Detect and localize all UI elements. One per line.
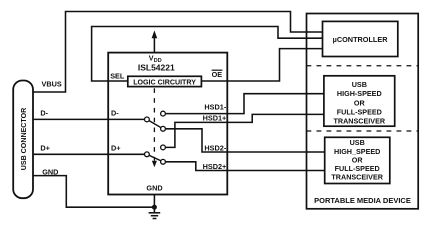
wire D- (connector to switch pole) [33, 118, 145, 120]
wire HSD2+ net (switch contact to transceiver 2) [165, 162, 324, 171]
wire HSD1+ net (switch contact to transceiver 1) [165, 114, 324, 147]
svg-text:SEL: SEL [110, 71, 125, 80]
portable media device box [307, 14, 419, 209]
svg-text:VBUS: VBUS [42, 80, 62, 89]
wire HSD1- net (switch contact to transceiver 1) [165, 94, 324, 114]
svg-text:OE: OE [212, 70, 223, 79]
svg-text:FULL-SPEED: FULL-SPEED [337, 108, 382, 117]
svg-text:TRANSCEIVER: TRANSCEIVER [334, 116, 386, 125]
switch S1 (D- pole and throws) [145, 111, 166, 131]
wire SEL net (logic circuitry to uController) [92, 27, 323, 82]
svg-text:GND: GND [42, 167, 58, 176]
svg-text:LOGIC CIRCUITRY: LOGIC CIRCUITRY [133, 78, 196, 86]
svg-text:USB CONNECTOR: USB CONNECTOR [20, 108, 28, 171]
uController U2 [323, 21, 398, 56]
svg-text:D+: D+ [40, 143, 50, 152]
label VDD [149, 53, 162, 64]
chip U1 ISL54221 box [108, 53, 227, 195]
dashed control line with arrow [152, 88, 157, 167]
svg-text:USB: USB [350, 138, 365, 147]
divider dashed line 1 [307, 65, 419, 67]
svg-text:ISL54221: ISL54221 [138, 63, 175, 73]
svg-text:HSD2-: HSD2- [204, 144, 226, 153]
svg-text:D+: D+ [111, 143, 121, 152]
power VDD arrow [152, 30, 158, 52]
svg-text:TRANSCEIVER: TRANSCEIVER [331, 173, 383, 182]
svg-text:DD: DD [154, 58, 162, 64]
svg-text:µCONTROLLER: µCONTROLLER [333, 35, 389, 44]
svg-text:D-: D- [111, 108, 119, 117]
wire OE net (logic circuitry to uController) [201, 49, 322, 81]
wire D+ (connector to switch pole) [33, 153, 145, 155]
wire VBUS net (connector to uController) [33, 12, 323, 93]
svg-text:USB: USB [352, 80, 367, 89]
junction dot [152, 205, 157, 210]
switch S2 (D+ pole and throws) [145, 145, 166, 164]
ground symbol [149, 213, 161, 219]
svg-text:D-: D- [40, 108, 48, 117]
wire GND stem [153, 195, 155, 213]
svg-text:OR: OR [354, 98, 366, 107]
svg-text:PORTABLE MEDIA DEVICE: PORTABLE MEDIA DEVICE [314, 196, 411, 205]
label OE with overline [212, 70, 223, 79]
wire HSD2- net (switch contact to transceiver 2) [165, 129, 324, 152]
wire GND (connector to ground junction) [33, 176, 154, 208]
svg-text:HSD1-: HSD1- [204, 103, 226, 112]
logic circuitry block [128, 76, 202, 86]
divider dashed line 2 [307, 130, 419, 132]
USB transceiver 1 block [324, 76, 395, 126]
USB connector J1 [13, 81, 33, 199]
svg-text:HSD1+: HSD1+ [203, 113, 227, 122]
svg-text:GND: GND [146, 184, 162, 193]
USB transceiver 2 block [325, 137, 390, 183]
svg-text:HIGH-SPEED: HIGH-SPEED [337, 89, 382, 98]
svg-text:HSD2+: HSD2+ [203, 162, 227, 171]
